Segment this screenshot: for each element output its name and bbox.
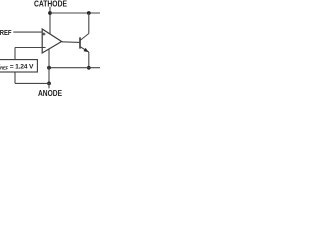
- transistor Q1 emitter arrowhead: [84, 48, 89, 52]
- wire anode pin stub: [48, 83, 50, 88]
- wire anode rail left: [15, 82, 51, 84]
- wire comparator ground drop: [48, 49, 50, 83]
- op-amp minus sign: [43, 46, 46, 48]
- wire op-amp output to base: [62, 41, 80, 44]
- wire reference box bottom lead: [14, 72, 16, 83]
- junction dot comparator ground node: [47, 66, 51, 70]
- wire collector lead: [88, 13, 90, 34]
- wire cathode lead: [49, 7, 51, 34]
- junction dot collector node: [87, 11, 91, 15]
- svg-text:ANODE: ANODE: [38, 89, 62, 98]
- wire emitter lead: [88, 52, 90, 68]
- op-amp U1 comparator triangle: [42, 29, 61, 53]
- wire reference box top lead: [14, 48, 16, 60]
- wire anode rail right: [49, 67, 100, 69]
- junction dot emitter node: [87, 66, 91, 70]
- junction dot anode node: [47, 82, 51, 86]
- svg-text:REF: REF: [0, 28, 12, 37]
- wire inverting input: [15, 47, 42, 49]
- op-amp plus sign: [42, 33, 45, 36]
- wire REF input: [13, 31, 42, 33]
- transistor Q1 emitter stroke: [80, 47, 89, 52]
- transistor Q1 base bar: [79, 37, 81, 48]
- voltage reference box: [0, 60, 37, 72]
- wire top rail to collector: [50, 12, 100, 14]
- transistor Q1 collector stroke: [80, 34, 89, 41]
- junction dot cathode node: [48, 11, 52, 15]
